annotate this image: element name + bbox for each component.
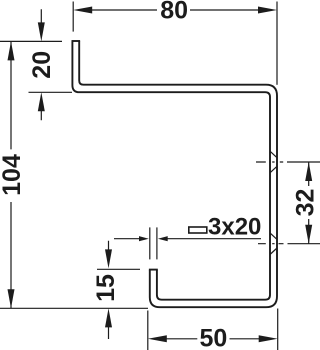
profile top-left tip cap — [72, 40, 81, 42]
extension line 15 top (lip tip) — [97, 268, 140, 270]
arrow slot left (points right) — [139, 236, 149, 241]
centerline bottom hole (dash-dot) — [258, 243, 320, 245]
extension line 80 right — [276, 2, 278, 85]
arrow slot right (points left) — [158, 236, 168, 241]
arrow 32 up — [305, 162, 312, 181]
slot symbol rectangle — [189, 227, 207, 233]
dimension line 104 — [10, 41, 12, 308]
svg-text:80: 80 — [160, 0, 188, 25]
svg-text:20: 20 — [28, 51, 56, 79]
hole mark top on right wall — [270, 151, 277, 173]
dimension line 20 (outside arrows tails) — [40, 9, 42, 120]
profile bottom lip tip cap — [149, 269, 158, 271]
arrow 104 up — [8, 41, 15, 60]
extension line slot left — [149, 227, 151, 259]
svg-text:50: 50 — [199, 324, 227, 350]
centerline top hole (dash-dot) — [256, 161, 320, 163]
svg-text:15: 15 — [92, 274, 120, 302]
dimension line 15 (outside arrows tails) — [108, 241, 110, 339]
dimension line 80 — [91, 9, 260, 11]
arrow 104 down — [8, 289, 15, 308]
hole mark bottom on right wall — [270, 233, 277, 255]
leader line 3x20 — [167, 238, 261, 240]
arrow 80 left — [73, 7, 92, 14]
dimension line 50 — [165, 338, 260, 340]
extension line 50 right — [277, 309, 279, 350]
profile outline J-rail outer surface line — [79, 41, 277, 307]
extension line bottom (y=308.3) — [0, 307, 148, 309]
arrow 80 right — [258, 7, 277, 14]
svg-text:104: 104 — [0, 154, 26, 196]
svg-text:32: 32 — [292, 189, 320, 217]
svg-text:3x20: 3x20 — [208, 214, 261, 241]
extension line top (tip level y=41.4) — [0, 40, 62, 42]
extension line 80 left — [72, 2, 74, 32]
arrow 50 right — [259, 335, 278, 342]
profile outline J-rail inner surface line — [72, 41, 270, 300]
extension line 20 bottom (y=92.3) — [29, 91, 73, 93]
arrow 20 top (points down) — [38, 22, 45, 41]
arrow 15 bottom (points up) — [105, 308, 112, 327]
arrow 32 down — [305, 225, 312, 244]
arrow 20 bottom (points up) — [38, 92, 45, 111]
dimension line slot 3 left tail — [114, 238, 140, 240]
arrow 50 left — [148, 335, 167, 342]
arrow 15 top (points down) — [105, 249, 112, 268]
extension line 50 left — [147, 311, 149, 350]
dimension line 32 — [308, 162, 310, 244]
extension line slot right — [156, 227, 158, 259]
